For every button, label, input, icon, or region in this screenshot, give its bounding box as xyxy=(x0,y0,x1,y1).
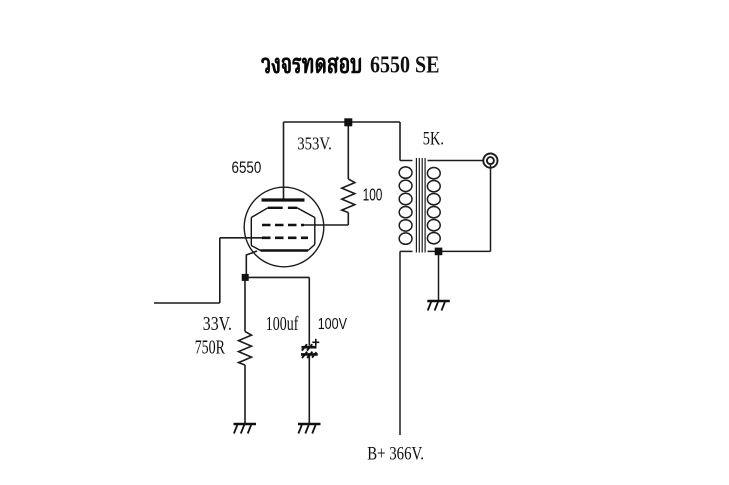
wire: primary bottom stub xyxy=(400,250,413,252)
svg-text:100V: 100V xyxy=(318,316,348,333)
wire: cathode junction to capacitor branch xyxy=(245,276,309,278)
wire: primary top stub xyxy=(400,160,413,162)
beam plate left slant xyxy=(251,208,267,218)
svg-text:5K.: 5K. xyxy=(423,128,444,149)
beam plate left side xyxy=(250,218,252,246)
tube screen grid g2 (dashed) xyxy=(262,224,304,227)
svg-text:6550 SE: 6550 SE xyxy=(370,52,440,79)
beam plate right slant xyxy=(297,208,315,218)
wire: screen grid g2 lead to R100 xyxy=(303,224,348,226)
wire: secondary top stub to output jack xyxy=(428,160,483,162)
wire: primary feed down from top rail xyxy=(399,122,401,161)
beam plate top-left segment xyxy=(268,207,283,209)
transformer core laminations xyxy=(416,158,425,253)
capacitor C1 polarity plus sign xyxy=(312,339,319,346)
beam plate right side xyxy=(314,218,316,245)
wire: R750 bottom lead to ground xyxy=(244,365,246,423)
junction: cathode node xyxy=(242,274,249,281)
svg-text:353V.: 353V. xyxy=(297,134,332,154)
resistor R 100 (screen dropper) zigzag xyxy=(342,179,355,213)
svg-text:100uf: 100uf xyxy=(266,314,299,335)
svg-text:B+ 366V.: B+ 366V. xyxy=(367,444,424,465)
transformer T1 output 5K xyxy=(399,161,490,436)
beam plate bottom-left diagonal xyxy=(251,246,260,251)
tube cathode bar xyxy=(261,249,309,251)
tube plate (anode) bar xyxy=(262,198,305,201)
wire: top rail down to R100 top xyxy=(347,122,349,179)
resistor R 750R (cathode bias) zigzag xyxy=(239,332,252,366)
capacitor C1 100uf plates xyxy=(301,344,318,358)
wire: capacitor C1 top lead xyxy=(308,277,310,345)
wire: R100 bottom lead xyxy=(347,213,349,226)
beam plate bottom-right diagonal xyxy=(308,245,315,251)
ground: under C1 xyxy=(298,424,321,434)
junction: plate supply / R100 node xyxy=(344,118,352,126)
output jack J1 (speaker terminal) xyxy=(483,154,497,168)
title: Thai text "วงจรทดสอบ" (test circuit) xyxy=(262,57,361,73)
wire: cathode hook lead xyxy=(246,251,257,277)
wire: control grid g1 lead out left xyxy=(220,237,262,239)
wire: jack return drop xyxy=(490,165,492,251)
wire: B+ top rail from plate to transformer primary xyxy=(284,121,401,123)
ground: under R750 xyxy=(234,424,257,434)
wire: grid input drop xyxy=(219,238,221,303)
tube V1 6550 envelope xyxy=(244,187,324,267)
wire: grid input stub left xyxy=(154,302,220,304)
svg-text:33V.: 33V. xyxy=(203,314,232,335)
transformer secondary winding loops xyxy=(427,168,440,179)
svg-text:6550: 6550 xyxy=(232,159,262,177)
wire: cathode down to R750 xyxy=(244,277,246,331)
beam plate top-right segment xyxy=(288,207,297,209)
wire: B+ feed down from primary xyxy=(399,251,401,435)
wire: capacitor C1 bottom lead to ground xyxy=(308,356,310,424)
svg-text:100: 100 xyxy=(363,185,383,205)
wire: secondary ground lead xyxy=(438,251,440,300)
wire: secondary bottom to jack return xyxy=(428,250,491,252)
svg-text:750R: 750R xyxy=(195,338,225,359)
wire: plate lead down to tube anode xyxy=(283,122,285,199)
tube control grid g1 (dashed) xyxy=(262,237,308,240)
junction: secondary return / ground node xyxy=(435,248,443,256)
ground: transformer secondary xyxy=(427,301,450,311)
transformer primary winding loops xyxy=(399,167,412,178)
